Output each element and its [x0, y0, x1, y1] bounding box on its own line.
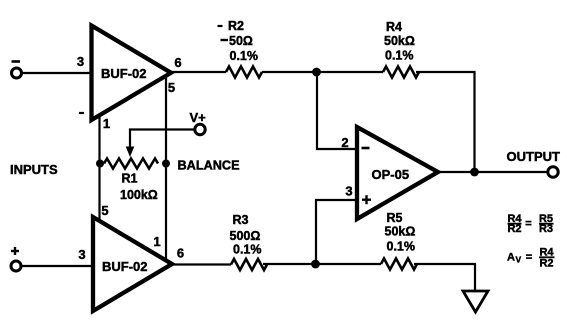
svg-text:50kΩ: 50kΩ: [385, 225, 416, 239]
wire U2 output bottom rail: [171, 263, 231, 265]
wire R2 to R4: [262, 71, 383, 73]
svg-text:=: =: [525, 218, 531, 230]
svg-text:3: 3: [345, 184, 352, 199]
svg-text:3: 3: [77, 54, 84, 69]
input terminal IN+: [11, 247, 21, 271]
svg-text:5: 5: [168, 80, 175, 95]
svg-text:2: 2: [341, 135, 348, 150]
svg-text:BALANCE: BALANCE: [178, 159, 240, 173]
equation R4/R2 = R5/R3: [507, 213, 553, 235]
svg-text:R2: R2: [507, 223, 521, 235]
op-amp U3 OP-05: [357, 127, 438, 219]
R1 value labels: [120, 172, 158, 203]
svg-text:V+: V+: [190, 110, 207, 125]
wire U3 output: [437, 171, 548, 173]
wire IN+ to U2 pin3: [21, 265, 93, 267]
input terminal IN-: [12, 62, 22, 79]
node: R1 right junction: [162, 160, 170, 168]
resistor R2: [226, 67, 262, 78]
wire IN- to U1 pin3: [22, 72, 91, 74]
node: output junction: [470, 168, 479, 177]
R5 labels: [385, 211, 416, 254]
svg-text:OP-05: OP-05: [372, 167, 410, 182]
wire U1 output top rail: [170, 71, 226, 73]
svg-text:0.1%: 0.1%: [233, 243, 262, 257]
svg-text:50kΩ: 50kΩ: [384, 34, 415, 48]
svg-text:R1: R1: [122, 172, 138, 186]
wiper arrow of R1: [126, 147, 135, 158]
svg-text:=: =: [526, 252, 532, 264]
svg-text:500Ω: 500Ω: [230, 229, 261, 243]
svg-text:OUTPUT: OUTPUT: [507, 149, 561, 164]
wire left vertical U1 pin1 to U2: [98, 114, 100, 221]
svg-text:0.1%: 0.1%: [385, 49, 414, 63]
potentiometer R1: [104, 159, 158, 169]
svg-text:1: 1: [103, 116, 110, 131]
svg-text:BUF-02: BUF-02: [102, 259, 148, 274]
svg-text:5: 5: [101, 203, 108, 218]
wire U3 pin3 to node B: [316, 200, 357, 262]
stray dash near U1 pin1: [79, 112, 84, 114]
R3 labels: [230, 213, 262, 257]
R4 labels: [384, 20, 415, 63]
svg-text:R5: R5: [387, 211, 403, 225]
node: R1 left junction: [96, 160, 104, 168]
svg-text:6: 6: [177, 246, 184, 261]
svg-text:R2: R2: [539, 258, 553, 270]
resistor R4: [383, 67, 419, 78]
node B junction bottom: [311, 260, 320, 269]
R2 labels: [218, 19, 259, 63]
wire R5 right then down to ground: [414, 264, 475, 291]
ground: [463, 291, 488, 312]
svg-text:R3: R3: [233, 213, 249, 227]
buffer U2 BUF-02: [93, 217, 172, 311]
svg-text:INPUTS: INPUTS: [10, 162, 58, 177]
svg-text:R3: R3: [539, 223, 553, 235]
svg-text:1: 1: [153, 234, 160, 249]
resistor R5: [381, 259, 417, 270]
resistor R3: [231, 259, 267, 270]
svg-text:100kΩ: 100kΩ: [120, 188, 158, 202]
wire R4 right then down to output node: [416, 72, 475, 172]
buffer U1 BUF-02: [92, 26, 172, 121]
node A junction top: [312, 68, 321, 77]
svg-text:6: 6: [174, 55, 181, 70]
svg-text:V: V: [516, 255, 522, 265]
svg-text:BUF-02: BUF-02: [101, 66, 147, 81]
OUTPUT terminal: [507, 149, 561, 177]
svg-text:50Ω: 50Ω: [229, 34, 253, 48]
svg-text:R2: R2: [228, 19, 244, 33]
equation Av = R4/R2: [507, 247, 555, 270]
wire V+ to wiper: [130, 130, 195, 149]
svg-text:A: A: [507, 252, 515, 264]
V+ terminal: [190, 110, 207, 135]
wire mid vertical U1 pin5 to U2 pin1: [165, 75, 167, 259]
svg-text:0.1%: 0.1%: [387, 240, 416, 254]
svg-text:R4: R4: [386, 20, 402, 34]
svg-text:3: 3: [78, 247, 85, 262]
wire R3 to R5: [263, 263, 381, 265]
wire node A down to U3 pin2: [317, 74, 357, 149]
svg-text:0.1%: 0.1%: [230, 49, 259, 63]
